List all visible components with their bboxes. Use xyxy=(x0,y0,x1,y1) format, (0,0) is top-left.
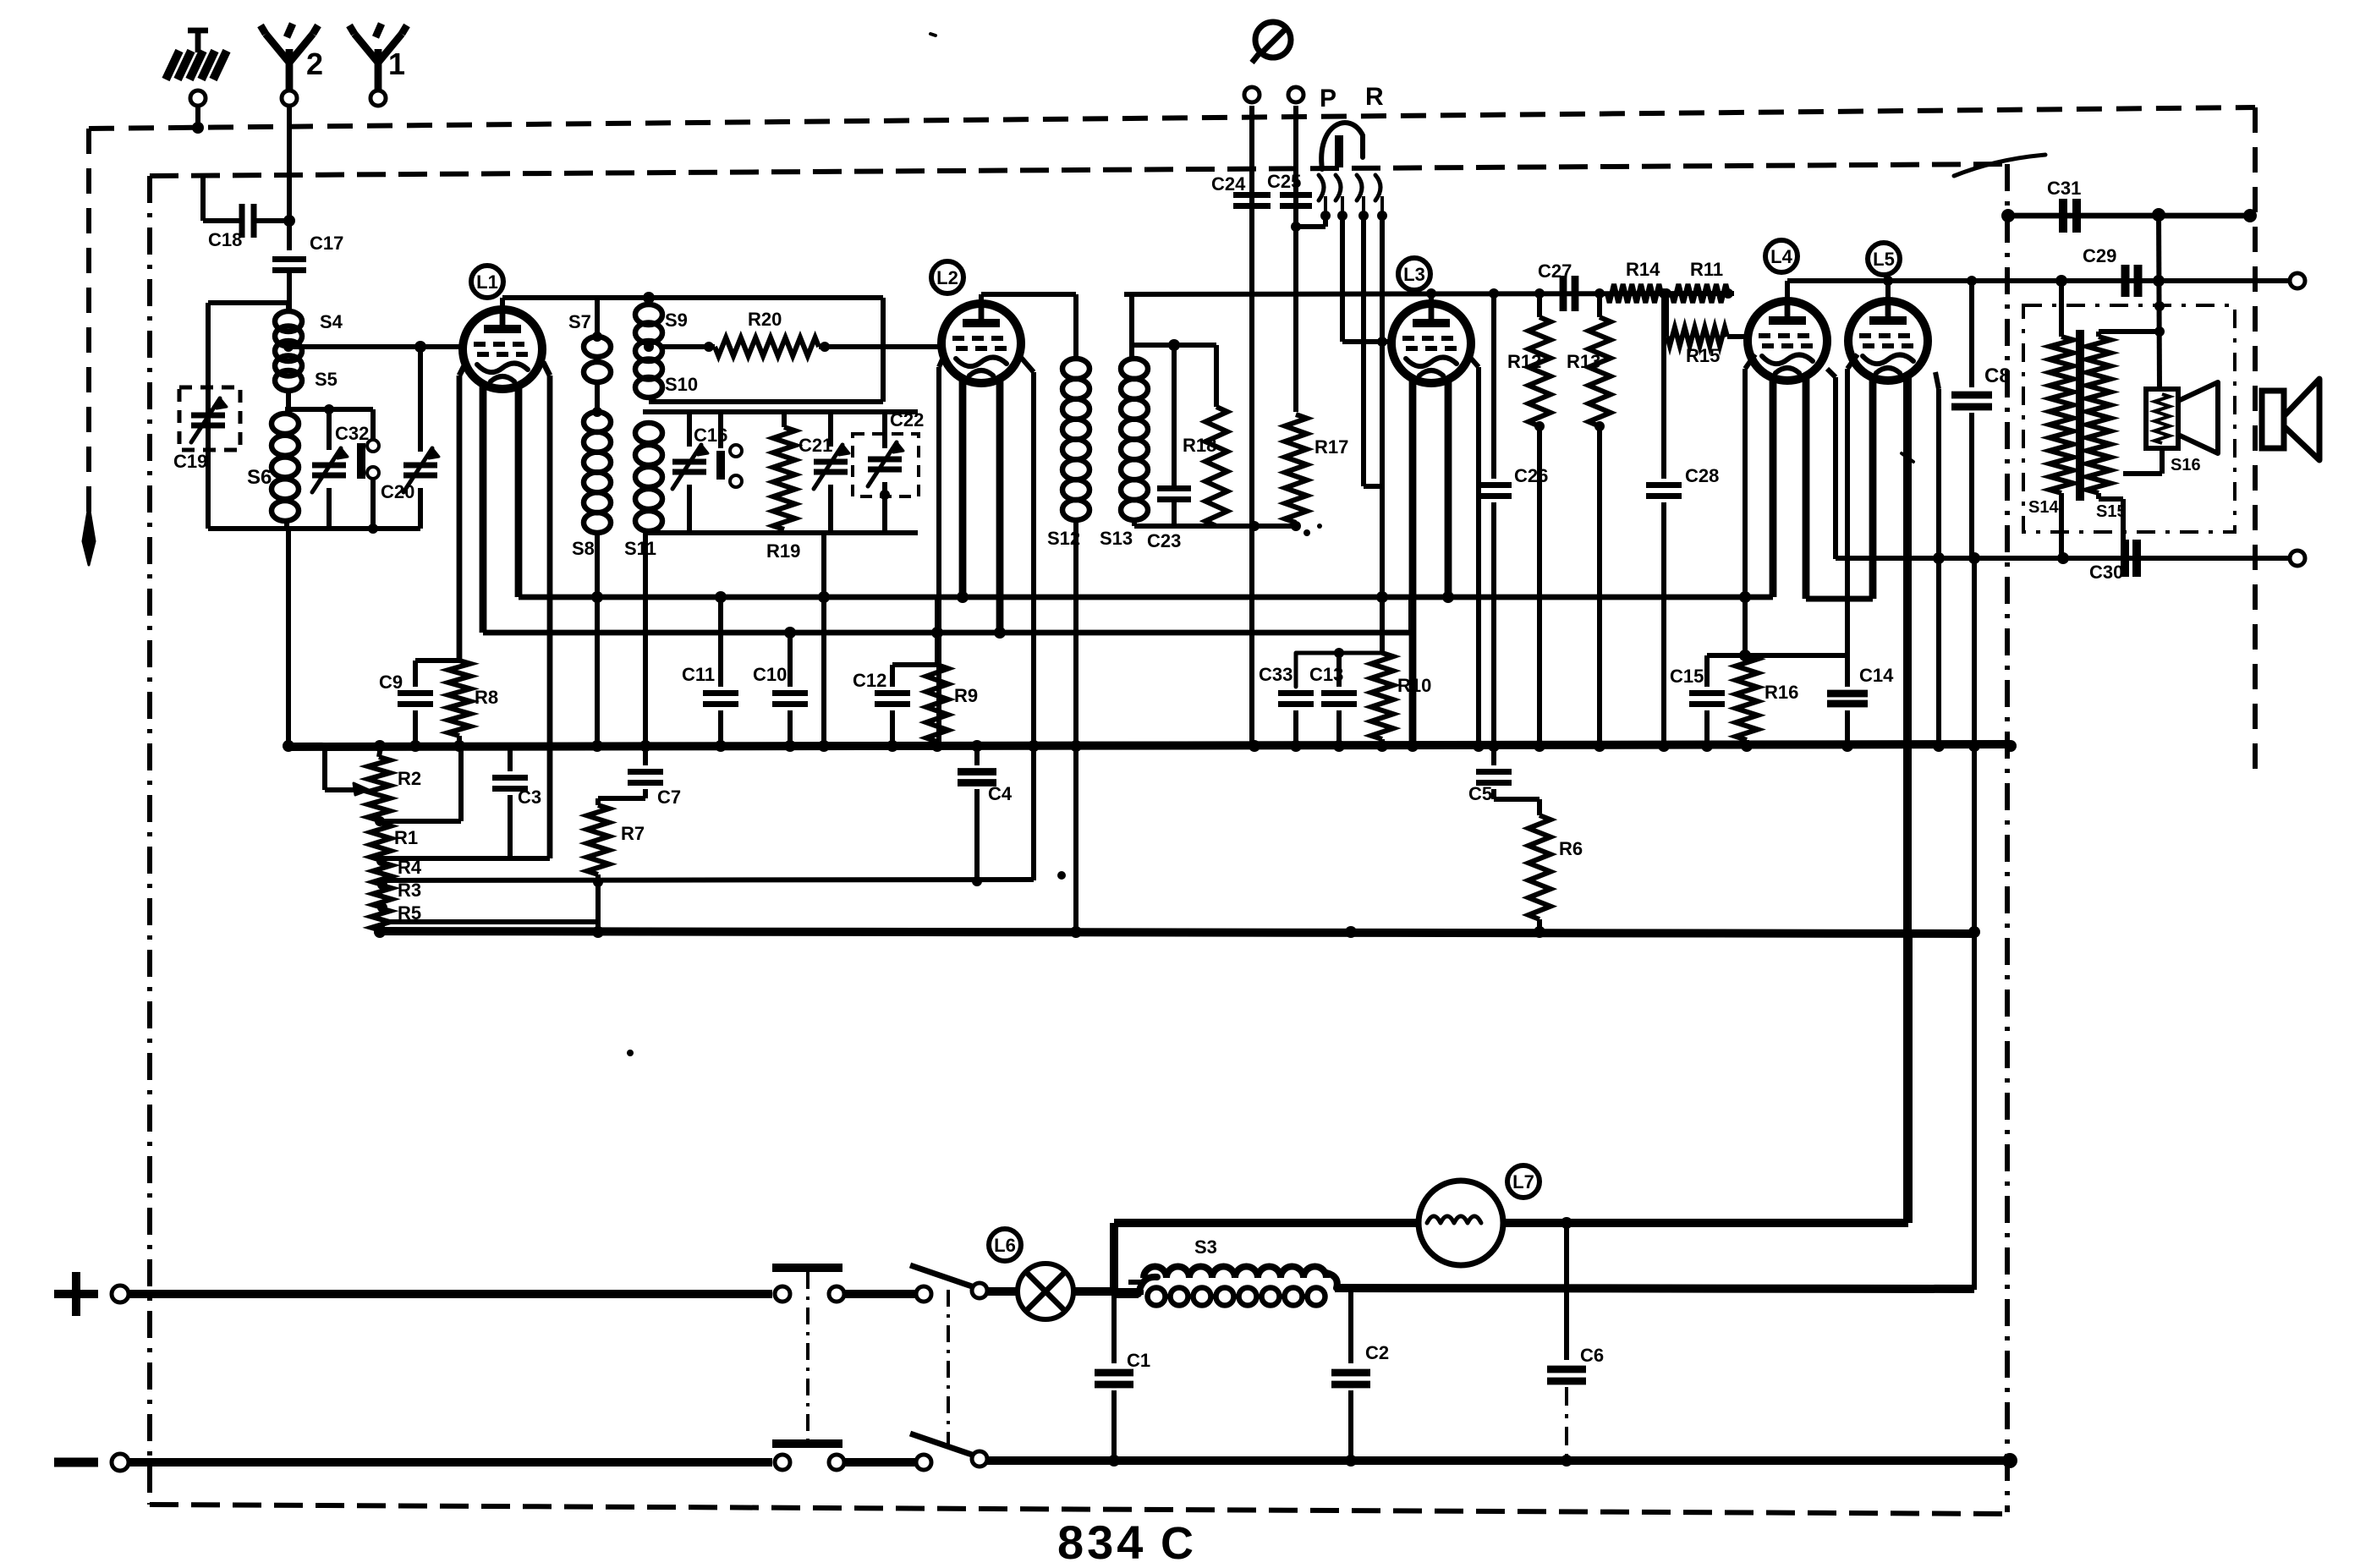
svg-text:R19: R19 xyxy=(766,540,800,562)
svg-text:C3: C3 xyxy=(518,787,541,808)
svg-text:L4: L4 xyxy=(1770,246,1792,267)
svg-text:C25: C25 xyxy=(1267,171,1301,192)
svg-text:S11: S11 xyxy=(624,538,656,559)
svg-text:S3: S3 xyxy=(1194,1236,1217,1258)
svg-text:L2: L2 xyxy=(936,267,958,288)
svg-text:R8: R8 xyxy=(475,687,498,708)
svg-text:S10: S10 xyxy=(665,374,698,395)
svg-text:R10: R10 xyxy=(1397,675,1431,696)
svg-text:R7: R7 xyxy=(621,823,645,844)
svg-text:C13: C13 xyxy=(1309,664,1343,685)
svg-text:C29: C29 xyxy=(2083,245,2116,266)
svg-text:S5: S5 xyxy=(315,369,338,390)
svg-text:C23: C23 xyxy=(1147,530,1181,551)
svg-text:R18: R18 xyxy=(1183,435,1216,456)
svg-text:L5: L5 xyxy=(1873,249,1895,270)
svg-text:C11: C11 xyxy=(682,664,715,685)
svg-text:C15: C15 xyxy=(1670,666,1704,687)
svg-text:C26: C26 xyxy=(1514,465,1548,486)
svg-text:R6: R6 xyxy=(1559,838,1583,859)
svg-text:L7: L7 xyxy=(1512,1171,1534,1192)
svg-text:C19: C19 xyxy=(173,451,207,472)
svg-text:C14: C14 xyxy=(1859,665,1894,686)
svg-text:S14: S14 xyxy=(2028,498,2059,517)
svg-text:C4: C4 xyxy=(988,783,1013,804)
svg-text:C1: C1 xyxy=(1127,1350,1150,1371)
svg-text:R2: R2 xyxy=(398,768,421,789)
svg-text:C10: C10 xyxy=(753,664,787,685)
svg-text:2: 2 xyxy=(306,47,323,81)
svg-text:834: 834 xyxy=(1057,1516,1146,1568)
svg-text:C7: C7 xyxy=(657,787,681,808)
svg-text:R16: R16 xyxy=(1765,682,1798,703)
svg-text:C17: C17 xyxy=(310,233,343,254)
svg-text:R17: R17 xyxy=(1314,436,1348,458)
svg-text:R: R xyxy=(1365,83,1384,111)
svg-text:S12: S12 xyxy=(1047,528,1080,549)
svg-text:L1: L1 xyxy=(476,271,498,293)
svg-text:C27: C27 xyxy=(1538,260,1572,282)
svg-text:R11: R11 xyxy=(1690,259,1723,280)
svg-text:S4: S4 xyxy=(320,311,343,332)
svg-text:C6: C6 xyxy=(1580,1345,1604,1366)
svg-text:1: 1 xyxy=(388,47,405,81)
svg-text:C24: C24 xyxy=(1211,173,1246,195)
svg-text:C28: C28 xyxy=(1685,465,1719,486)
svg-text:C33: C33 xyxy=(1259,664,1293,685)
svg-text:C12: C12 xyxy=(853,670,886,691)
svg-text:C20: C20 xyxy=(381,481,414,502)
svg-text:R20: R20 xyxy=(748,309,782,330)
svg-text:S6: S6 xyxy=(247,466,272,489)
svg-text:C32: C32 xyxy=(335,423,369,444)
svg-text:P: P xyxy=(1320,85,1336,112)
svg-text:S9: S9 xyxy=(665,310,688,331)
svg-text:S8: S8 xyxy=(572,538,595,559)
svg-text:R9: R9 xyxy=(954,685,978,706)
svg-text:L6: L6 xyxy=(994,1235,1016,1256)
svg-text:C2: C2 xyxy=(1365,1342,1389,1363)
svg-text:C30: C30 xyxy=(2089,562,2123,583)
svg-text:C5: C5 xyxy=(1468,783,1492,804)
svg-text:R13: R13 xyxy=(1567,351,1600,372)
svg-text:S13: S13 xyxy=(1100,528,1133,549)
svg-text:C31: C31 xyxy=(2047,178,2081,199)
svg-text:R15: R15 xyxy=(1686,345,1720,366)
svg-text:R14: R14 xyxy=(1626,259,1660,280)
svg-text:L3: L3 xyxy=(1403,264,1425,285)
svg-text:R12: R12 xyxy=(1507,351,1541,372)
svg-text:C9: C9 xyxy=(379,672,403,693)
svg-text:C21: C21 xyxy=(799,435,832,456)
svg-text:S16: S16 xyxy=(2171,456,2201,474)
svg-text:C8: C8 xyxy=(1984,365,2011,387)
svg-text:S7: S7 xyxy=(568,311,591,332)
svg-text:C: C xyxy=(1161,1518,1194,1568)
svg-text:C22: C22 xyxy=(890,409,924,430)
svg-text:R1: R1 xyxy=(394,827,418,848)
svg-text:C18: C18 xyxy=(208,229,242,250)
svg-text:S15: S15 xyxy=(2096,502,2127,521)
